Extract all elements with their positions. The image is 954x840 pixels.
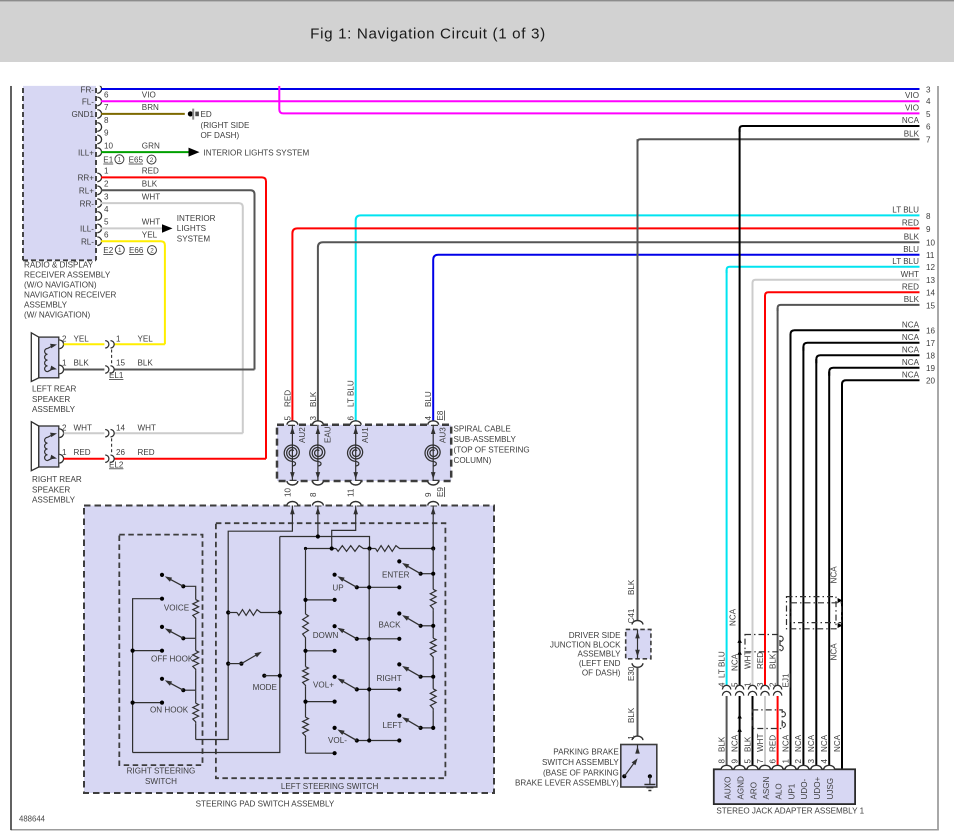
svg-text:2: 2	[62, 335, 67, 344]
svg-text:488644: 488644	[19, 815, 46, 824]
svg-text:ILL-: ILL-	[80, 225, 94, 234]
svg-text:VOL-: VOL-	[328, 736, 347, 745]
svg-text:BLK: BLK	[627, 707, 636, 723]
svg-text:ARO: ARO	[749, 782, 758, 800]
svg-text:1: 1	[781, 759, 790, 764]
svg-text:JUNCTION BLOCK: JUNCTION BLOCK	[550, 640, 621, 649]
svg-text:BLK: BLK	[743, 736, 752, 752]
svg-text:NCA: NCA	[833, 734, 842, 752]
svg-text:BLK: BLK	[309, 391, 318, 407]
svg-text:BLK: BLK	[904, 295, 920, 304]
svg-text:VIO: VIO	[905, 104, 919, 113]
svg-text:NCA: NCA	[902, 358, 920, 367]
svg-text:15: 15	[926, 301, 936, 310]
svg-text:E8: E8	[436, 410, 445, 420]
svg-text:AGND: AGND	[736, 776, 745, 800]
svg-text:7: 7	[926, 136, 931, 145]
svg-text:3: 3	[309, 416, 318, 421]
svg-text:NCA: NCA	[902, 320, 920, 329]
svg-text:DOWN: DOWN	[313, 631, 339, 640]
svg-text:10: 10	[104, 141, 114, 150]
svg-text:EJ1: EJ1	[782, 673, 791, 687]
svg-text:10: 10	[283, 487, 292, 497]
svg-text:4: 4	[820, 759, 829, 764]
svg-text:LEFT STEERING SWITCH: LEFT STEERING SWITCH	[281, 782, 379, 791]
svg-text:YEL: YEL	[74, 335, 90, 344]
svg-text:ON HOOK: ON HOOK	[150, 706, 189, 715]
svg-text:WHT: WHT	[756, 734, 765, 752]
svg-text:ASSEMBLY: ASSEMBLY	[32, 405, 76, 414]
svg-text:5: 5	[743, 759, 752, 764]
svg-text:4: 4	[424, 416, 433, 421]
svg-text:WHT: WHT	[142, 218, 160, 227]
svg-text:13: 13	[926, 276, 936, 285]
svg-text:6: 6	[768, 759, 777, 764]
svg-text:3: 3	[807, 759, 816, 764]
svg-text:3: 3	[926, 85, 931, 94]
svg-text:12: 12	[926, 263, 936, 272]
svg-text:UDO+: UDO+	[813, 777, 822, 800]
svg-text:BLK: BLK	[138, 359, 154, 368]
svg-text:NCA: NCA	[902, 370, 920, 379]
svg-text:NCA: NCA	[830, 566, 839, 584]
svg-text:(BASE OF PARKING: (BASE OF PARKING	[543, 768, 619, 777]
svg-text:RR-: RR-	[80, 199, 95, 208]
svg-text:WHT: WHT	[138, 424, 156, 433]
svg-text:2: 2	[150, 247, 154, 254]
svg-text:6: 6	[347, 416, 356, 421]
svg-text:VIO: VIO	[905, 91, 919, 100]
svg-text:(TOP OF STEERING: (TOP OF STEERING	[454, 445, 530, 454]
svg-text:NCA: NCA	[830, 643, 839, 661]
svg-text:26: 26	[116, 448, 126, 457]
svg-text:NCA: NCA	[781, 734, 790, 752]
svg-text:15: 15	[116, 359, 126, 368]
svg-text:ASSEMBLY: ASSEMBLY	[24, 300, 68, 309]
svg-text:RIGHT: RIGHT	[377, 674, 402, 683]
svg-text:14: 14	[926, 289, 936, 298]
svg-text:OF DASH): OF DASH)	[582, 669, 621, 678]
svg-text:WHT: WHT	[901, 270, 919, 279]
svg-text:BRAKE LEVER ASSEMBLY): BRAKE LEVER ASSEMBLY)	[515, 779, 619, 788]
svg-text:STEERING PAD SWITCH ASSEMBLY: STEERING PAD SWITCH ASSEMBLY	[196, 799, 335, 808]
svg-text:6: 6	[926, 122, 931, 131]
svg-text:BLK: BLK	[768, 653, 777, 669]
svg-text:10: 10	[926, 239, 936, 248]
svg-text:DRIVER SIDE: DRIVER SIDE	[569, 631, 621, 640]
svg-text:1: 1	[116, 335, 121, 344]
svg-text:AU3: AU3	[439, 427, 448, 443]
svg-text:16: 16	[926, 327, 936, 336]
svg-text:ASGN: ASGN	[762, 776, 771, 799]
svg-text:BLK: BLK	[627, 579, 636, 595]
svg-text:LT BLU: LT BLU	[892, 206, 919, 215]
svg-text:FR-: FR-	[81, 85, 95, 94]
svg-text:NCA: NCA	[729, 608, 738, 626]
svg-text:SPEAKER: SPEAKER	[32, 395, 70, 404]
svg-text:RED: RED	[768, 735, 777, 752]
svg-text:9: 9	[424, 492, 433, 497]
svg-text:9: 9	[926, 225, 931, 234]
svg-text:C41: C41	[627, 608, 636, 623]
svg-text:1: 1	[118, 157, 122, 164]
svg-text:ALO: ALO	[774, 783, 783, 799]
svg-text:3: 3	[756, 682, 765, 687]
svg-text:RECEIVER ASSEMBLY: RECEIVER ASSEMBLY	[24, 270, 111, 279]
svg-text:5: 5	[926, 110, 931, 119]
svg-text:11: 11	[926, 251, 935, 260]
svg-text:NCA: NCA	[794, 734, 803, 752]
svg-text:ILL+: ILL+	[78, 148, 94, 157]
svg-text:5: 5	[283, 416, 292, 421]
svg-text:ASSEMBLY: ASSEMBLY	[577, 650, 621, 659]
svg-text:ED: ED	[201, 110, 212, 119]
svg-text:RED: RED	[902, 219, 919, 228]
svg-text:SWITCH: SWITCH	[145, 777, 177, 786]
svg-text:6: 6	[104, 230, 109, 239]
svg-text:WHT: WHT	[74, 424, 92, 433]
svg-text:NCA: NCA	[902, 333, 920, 342]
svg-text:ASSEMBLY: ASSEMBLY	[32, 496, 76, 505]
svg-text:9: 9	[730, 759, 739, 764]
svg-text:(W/ NAVIGATION): (W/ NAVIGATION)	[24, 310, 91, 319]
svg-text:VOL+: VOL+	[313, 680, 334, 689]
svg-text:UP: UP	[332, 583, 343, 592]
svg-text:(W/O NAVIGATION): (W/O NAVIGATION)	[24, 280, 97, 289]
svg-text:VOICE: VOICE	[164, 604, 190, 613]
svg-text:VIO: VIO	[142, 91, 156, 100]
svg-text:2: 2	[62, 424, 67, 433]
svg-text:LT BLU: LT BLU	[717, 651, 726, 678]
svg-text:7: 7	[756, 759, 765, 764]
svg-text:4: 4	[717, 682, 726, 687]
svg-text:E30: E30	[627, 666, 636, 681]
svg-text:8: 8	[309, 492, 318, 497]
svg-text:NCA: NCA	[902, 116, 920, 125]
svg-text:17: 17	[926, 339, 936, 348]
svg-text:AU2: AU2	[298, 427, 307, 443]
svg-text:FL-: FL-	[82, 98, 94, 107]
svg-text:5: 5	[104, 218, 109, 227]
svg-text:LT BLU: LT BLU	[892, 257, 919, 266]
svg-text:UP1: UP1	[787, 783, 796, 799]
svg-text:COLUMN): COLUMN)	[454, 456, 492, 465]
svg-text:MODE: MODE	[253, 683, 278, 692]
svg-text:RED: RED	[138, 448, 155, 457]
svg-text:RADIO & DISPLAY: RADIO & DISPLAY	[24, 261, 94, 270]
svg-text:SWITCH ASSEMBLY: SWITCH ASSEMBLY	[542, 758, 619, 767]
svg-text:1: 1	[743, 682, 752, 687]
svg-text:RED: RED	[74, 448, 91, 457]
svg-text:NCA: NCA	[807, 734, 816, 752]
svg-text:RED: RED	[283, 390, 292, 407]
svg-text:NCA: NCA	[730, 653, 739, 671]
svg-text:LEFT REAR: LEFT REAR	[32, 384, 77, 393]
svg-text:1: 1	[104, 167, 109, 176]
svg-text:7: 7	[104, 103, 109, 112]
svg-text:RL+: RL+	[79, 187, 94, 196]
svg-text:Fig 1: Navigation Circuit (1 o: Fig 1: Navigation Circuit (1 of 3)	[310, 26, 546, 43]
svg-text:SYSTEM: SYSTEM	[177, 234, 211, 243]
svg-text:5: 5	[730, 682, 739, 687]
svg-text:2: 2	[104, 180, 109, 189]
svg-text:NCA: NCA	[730, 734, 739, 752]
svg-text:INTERIOR: INTERIOR	[177, 214, 216, 223]
svg-text:18: 18	[926, 352, 936, 361]
svg-text:14: 14	[116, 424, 126, 433]
svg-text:STEREO JACK ADAPTER ASSEMBLY 1: STEREO JACK ADAPTER ASSEMBLY 1	[716, 807, 864, 816]
svg-text:RL-: RL-	[81, 238, 94, 247]
svg-text:(RIGHT SIDE: (RIGHT SIDE	[201, 121, 250, 130]
svg-text:EAU: EAU	[323, 426, 332, 443]
svg-text:YEL: YEL	[138, 335, 154, 344]
svg-text:WHT: WHT	[743, 651, 752, 669]
svg-text:4: 4	[104, 205, 109, 214]
svg-text:NCA: NCA	[902, 345, 920, 354]
svg-text:E9: E9	[436, 487, 445, 497]
svg-text:E2: E2	[103, 246, 113, 255]
svg-text:RIGHT REAR: RIGHT REAR	[32, 475, 82, 484]
svg-text:19: 19	[926, 364, 936, 373]
svg-text:BLK: BLK	[717, 736, 726, 752]
svg-text:4: 4	[926, 97, 931, 106]
svg-text:1: 1	[627, 735, 636, 740]
svg-text:6: 6	[104, 91, 109, 100]
svg-text:1: 1	[62, 448, 67, 457]
svg-text:9: 9	[104, 129, 109, 138]
svg-text:(LEFT END: (LEFT END	[579, 659, 621, 668]
svg-text:BLU: BLU	[903, 245, 919, 254]
svg-text:20: 20	[926, 377, 936, 386]
svg-text:3: 3	[104, 192, 109, 201]
svg-text:OFF HOOK: OFF HOOK	[151, 655, 194, 664]
svg-text:RIGHT STEERING: RIGHT STEERING	[127, 767, 196, 776]
svg-text:UJSG: UJSG	[826, 778, 835, 800]
svg-text:INTERIOR LIGHTS SYSTEM: INTERIOR LIGHTS SYSTEM	[204, 148, 310, 157]
svg-text:SPEAKER: SPEAKER	[32, 485, 70, 494]
svg-text:RED: RED	[142, 167, 159, 176]
svg-text:AU1: AU1	[361, 427, 370, 443]
svg-text:2: 2	[794, 759, 803, 764]
svg-text:1: 1	[62, 359, 67, 368]
svg-text:PARKING BRAKE: PARKING BRAKE	[553, 748, 619, 757]
svg-text:GRN: GRN	[142, 141, 160, 150]
svg-text:E1: E1	[103, 156, 113, 165]
svg-text:NAVIGATION RECEIVER: NAVIGATION RECEIVER	[24, 290, 116, 299]
svg-text:RED: RED	[902, 283, 919, 292]
svg-text:OF DASH): OF DASH)	[201, 131, 240, 140]
svg-text:ENTER: ENTER	[382, 570, 410, 579]
svg-text:BLU: BLU	[424, 391, 433, 407]
svg-text:11: 11	[347, 488, 356, 497]
svg-text:RR+: RR+	[78, 174, 95, 183]
svg-text:E66: E66	[129, 246, 144, 255]
svg-text:8: 8	[926, 212, 931, 221]
svg-text:SUB-ASSEMBLY: SUB-ASSEMBLY	[454, 435, 517, 444]
svg-text:WHT: WHT	[142, 192, 160, 201]
svg-text:LEFT: LEFT	[383, 721, 403, 730]
svg-text:8: 8	[717, 759, 726, 764]
svg-text:2: 2	[150, 157, 154, 164]
svg-text:UDO-: UDO-	[800, 779, 809, 800]
svg-text:BRN: BRN	[142, 103, 159, 112]
svg-text:LT BLU: LT BLU	[347, 380, 356, 407]
svg-text:8: 8	[104, 116, 109, 125]
svg-text:AUXO: AUXO	[723, 777, 732, 800]
svg-text:1: 1	[118, 247, 122, 254]
svg-text:GND1: GND1	[72, 110, 95, 119]
svg-text:LIGHTS: LIGHTS	[177, 224, 207, 233]
svg-text:BLK: BLK	[904, 130, 920, 139]
svg-text:YEL: YEL	[142, 230, 158, 239]
svg-text:E65: E65	[129, 156, 144, 165]
svg-text:2: 2	[768, 682, 777, 687]
svg-text:NCA: NCA	[820, 734, 829, 752]
svg-text:BACK: BACK	[379, 621, 402, 630]
svg-text:BLK: BLK	[904, 233, 920, 242]
svg-text:RED: RED	[756, 652, 765, 669]
svg-text:BLK: BLK	[74, 359, 90, 368]
svg-text:SPIRAL CABLE: SPIRAL CABLE	[454, 424, 512, 433]
svg-text:BLK: BLK	[142, 180, 158, 189]
